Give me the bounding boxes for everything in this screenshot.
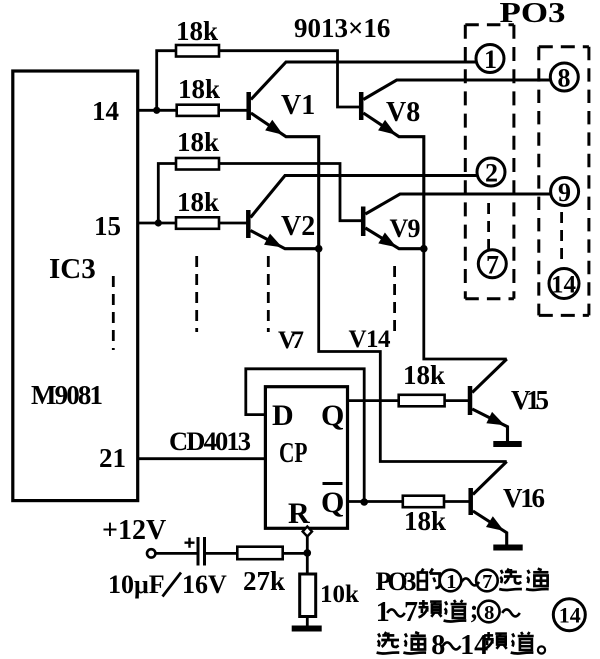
svg-text:16V: 16V: [182, 570, 227, 599]
svg-text:V7: V7: [278, 327, 304, 354]
svg-text:1: 1: [484, 45, 497, 74]
hanzi xuan: [504, 569, 522, 584]
tilde 1: [462, 578, 480, 585]
transistor V16 base bar: [468, 488, 473, 515]
wire node up to R1: [157, 51, 176, 111]
hanzi pin: [484, 632, 507, 649]
V15 collector: [472, 359, 507, 393]
node 8 circle: [550, 63, 578, 91]
transistor V9 base bar: [361, 207, 366, 237]
svg-text:V2: V2: [281, 211, 315, 242]
V16 collector: [473, 462, 507, 495]
svg-text:10μF: 10μF: [108, 570, 165, 599]
svg-text:21: 21: [99, 443, 126, 473]
wire Q output to R5: [348, 399, 399, 402]
PO3 connector dashed box 1-7: [465, 25, 514, 299]
svg-text:CP: CP: [279, 437, 308, 469]
svg-text:CD4013: CD4013: [169, 426, 251, 456]
V8 emitter: [363, 113, 423, 249]
resistor R4 18k body: [176, 217, 219, 229]
circled 8 small: [478, 601, 500, 623]
node 1 circle: [476, 45, 504, 73]
V9 emitter arrow: [380, 234, 394, 245]
transistor V1 base bar: [246, 92, 251, 120]
svg-text:9: 9: [558, 178, 571, 207]
dashed continuation below resistors: [195, 256, 198, 332]
wire V8/V9 emitters down to V15 collector: [424, 249, 507, 359]
capacitor C1 polarity plus: [185, 538, 195, 548]
wire R4 right to V2 base: [219, 222, 247, 225]
svg-text:Q: Q: [321, 399, 344, 432]
wire pin14 to node and R2: [138, 109, 177, 112]
wire node up to R3: [158, 164, 176, 224]
wire R pin down to node: [306, 537, 309, 575]
dashed continuation below V2: [267, 256, 270, 332]
svg-text:V16: V16: [503, 483, 545, 513]
svg-text:27k: 27k: [243, 566, 285, 596]
V9 emitter: [365, 228, 423, 249]
wire pin21 to CP: [138, 457, 266, 460]
svg-text:14: 14: [92, 96, 119, 126]
IC U3 body: [13, 71, 138, 501]
node 7 circle: [478, 250, 506, 278]
tilde 3: [502, 609, 520, 616]
circled 7 small: [476, 570, 498, 592]
hanzi dao: [518, 632, 534, 650]
V1 emitter: [251, 113, 319, 249]
wire pin15 to node and R4: [138, 222, 176, 225]
node R junction: [304, 549, 312, 557]
svg-text:18k: 18k: [176, 16, 218, 46]
circled 14 large: [553, 599, 585, 631]
V8 emitter arrow: [380, 122, 394, 134]
resistor R1 18k body: [176, 45, 219, 57]
svg-text:8: 8: [484, 602, 494, 624]
node 2 circle: [477, 158, 505, 186]
V1 emitter arrow: [267, 122, 281, 134]
capacitor C1 plates: [197, 537, 200, 566]
svg-text:18k: 18k: [404, 506, 446, 536]
svg-text:+12V: +12V: [102, 515, 166, 546]
V16 emitter arrow: [488, 518, 502, 529]
flip-flop CD4013 body: [265, 387, 347, 529]
dashed continuation 2 to 7: [487, 203, 490, 258]
svg-text:V15: V15: [511, 385, 549, 415]
svg-text:18k: 18k: [177, 187, 219, 217]
svg-text:15: 15: [94, 211, 121, 241]
resistor R3 18k body: [176, 158, 219, 170]
transistor V2 base bar: [246, 210, 251, 238]
wire R7 to node: [283, 552, 308, 555]
V2 collector: [251, 176, 478, 218]
V16 emitter: [473, 511, 507, 546]
dashed continuation 9 to 14: [560, 212, 563, 261]
wire R2 right to V1 base: [219, 109, 247, 112]
svg-text:1: 1: [446, 571, 456, 593]
hanzi tong: [533, 569, 548, 586]
svg-text:7: 7: [404, 597, 418, 628]
svg-text:IC3: IC3: [49, 253, 96, 285]
circled 1 small: [440, 570, 462, 592]
svg-text:V14: V14: [349, 326, 392, 353]
tilde 4: [443, 642, 461, 649]
resistor R2 18k body: [177, 105, 219, 116]
resistor R5 18k body: [399, 395, 445, 407]
svg-text:14: 14: [559, 603, 581, 628]
resistor R8 10k body (vertical): [300, 574, 316, 617]
resistor R7 27k body: [237, 547, 282, 560]
V9 collector: [365, 194, 551, 214]
wire R6 to V16 base: [444, 500, 469, 503]
svg-text:V8: V8: [386, 97, 420, 128]
wire V1/V2 emitters down to V16 collector: [319, 249, 507, 462]
wire R3 right to corner down to V9 base: [219, 164, 362, 221]
wire R5 to V15 base: [445, 399, 468, 402]
ground for V16: [493, 545, 522, 551]
svg-text:14: 14: [551, 272, 577, 299]
wire R1 right to corner down to V8 base: [219, 51, 360, 107]
svg-text:V9: V9: [390, 214, 421, 243]
svg-text:7: 7: [482, 571, 492, 593]
V2 emitter arrow: [266, 235, 280, 246]
svg-text:10k: 10k: [320, 581, 359, 608]
R pin bubble diamond: [303, 527, 312, 537]
svg-text:18k: 18k: [403, 360, 445, 390]
dashed continuation below V9: [393, 266, 396, 332]
wire R8 to ground: [306, 617, 309, 629]
svg-text:R: R: [288, 497, 310, 530]
V1 collector: [251, 62, 476, 100]
V8 collector: [363, 80, 550, 100]
svg-text:9013×16: 9013×16: [294, 13, 390, 43]
transistor V15 base bar: [468, 386, 473, 415]
svg-text:8: 8: [558, 64, 571, 93]
node 9 circle: [551, 178, 579, 206]
V2 emitter: [251, 231, 319, 249]
dashed continuation line inside IC3: [112, 276, 115, 350]
node V8-V9 emitter junction: [420, 245, 428, 253]
caption line 3: xuan tong 8 ~ 14 pin dao .: [381, 632, 399, 647]
ideographic full stop: [538, 646, 545, 653]
svg-text:7: 7: [486, 251, 499, 280]
svg-text:M9081: M9081: [31, 380, 103, 410]
svg-text:V1: V1: [281, 90, 315, 121]
wire capacitor to R7: [205, 552, 238, 555]
hanzi dao: [451, 600, 467, 618]
feedback wire D to Qbar: [246, 369, 364, 502]
svg-text:D: D: [272, 399, 294, 432]
V15 emitter: [472, 409, 507, 443]
node pin15 junction: [155, 219, 162, 226]
hanzi de: [418, 569, 440, 590]
+12V terminal: [147, 549, 155, 557]
tilde 2: [387, 609, 405, 616]
svg-text:18k: 18k: [177, 127, 219, 157]
svg-text:18k: 18k: [178, 74, 220, 104]
PO3 connector dashed box 8-14: [539, 47, 589, 316]
node feedback-Qbar junction: [360, 498, 368, 506]
V15 emitter arrow: [488, 414, 502, 424]
node pin14 junction: [153, 107, 160, 114]
svg-text:Q: Q: [321, 486, 344, 519]
transistor V8 base bar: [359, 92, 364, 120]
hanzi pin: [419, 600, 442, 617]
svg-text:2: 2: [485, 159, 498, 188]
node V1-V2 emitter junction: [315, 245, 323, 253]
resistor R6 18k body: [403, 496, 444, 508]
svg-text:PO3: PO3: [376, 567, 417, 596]
wire Qbar output to R6: [348, 500, 403, 503]
ground for R8: [292, 626, 322, 632]
ground for V15: [493, 441, 521, 447]
node 14 circle: [549, 269, 579, 299]
svg-text:14: 14: [460, 630, 488, 659]
wire terminal to capacitor: [155, 552, 197, 555]
